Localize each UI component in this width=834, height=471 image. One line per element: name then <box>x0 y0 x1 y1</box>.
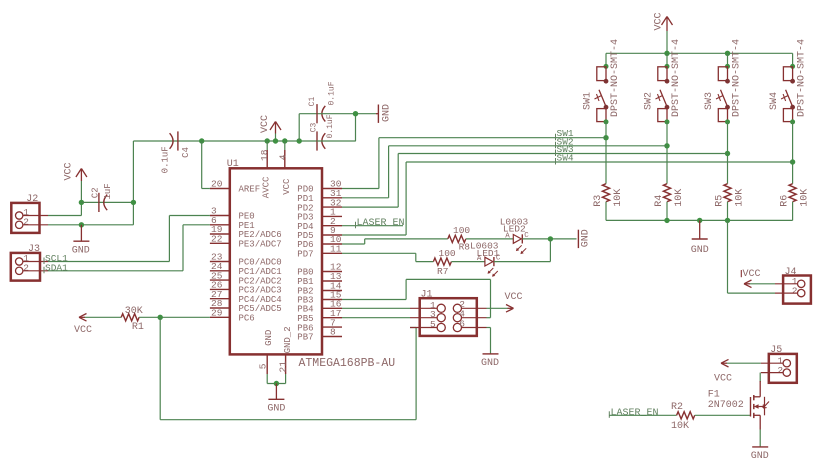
svg-text:U1: U1 <box>227 159 239 170</box>
pin PB3 (15) <box>322 299 342 301</box>
resistor R8 100 <box>448 235 466 242</box>
svg-text:J1: J1 <box>421 289 433 300</box>
junction rail-SW2 <box>664 51 669 56</box>
pin PD0 (30) <box>322 188 342 190</box>
svg-text:C3: C3 <box>309 122 318 132</box>
pin PC6 (29) <box>210 316 230 318</box>
wire SW1 column down <box>605 122 607 184</box>
junction C2 left <box>79 200 84 205</box>
pin AREF (20) <box>210 188 230 190</box>
pin AVCC (18) <box>266 150 268 168</box>
connector J1 <box>420 298 477 336</box>
svg-text:ATMEGA168PB-AU: ATMEGA168PB-AU <box>299 357 396 370</box>
wire net SW4 vertical from PD5 <box>405 162 407 235</box>
pin PD7 (11) <box>322 252 342 254</box>
wire net SW1 vertical from PD0 <box>378 138 380 189</box>
wire net LASER_EN (PD4) <box>342 225 403 227</box>
wire C1 branch up <box>298 114 300 141</box>
resistor R1 30K <box>85 316 121 318</box>
svg-text:30K: 30K <box>125 306 143 317</box>
junction AREF drop <box>199 138 204 143</box>
resistor R3 10K <box>602 184 609 202</box>
LED LED1 L0603 <box>485 257 493 266</box>
svg-text:LASER_EN: LASER_EN <box>357 218 405 229</box>
power VCC (R1) <box>79 314 87 318</box>
power VCC (J4) <box>744 280 752 284</box>
svg-text:10K: 10K <box>800 189 811 207</box>
wire net SCL1 <box>48 261 169 263</box>
svg-text:VCC: VCC <box>260 115 271 133</box>
pin PE3/ADC7 (22) <box>210 242 230 244</box>
svg-text:2: 2 <box>23 217 29 228</box>
svg-text:20: 20 <box>211 179 223 190</box>
svg-text:DPST-NO-SMT-4: DPST-NO-SMT-4 <box>732 39 743 117</box>
junction R1/reset loop <box>158 315 163 320</box>
pin PD1 (31) <box>322 197 342 199</box>
svg-text:LASER_EN: LASER_EN <box>611 408 659 419</box>
svg-text:C2: C2 <box>91 187 101 198</box>
pin PB2 (14) <box>322 290 342 292</box>
label net SDA1 <box>43 267 45 274</box>
svg-text:0.1uF: 0.1uF <box>161 146 171 173</box>
ground (C1/C3) rotated <box>376 113 378 115</box>
wire SW2 column down <box>666 122 668 184</box>
wire net SW2 horizontal <box>389 145 667 147</box>
svg-text:SW4: SW4 <box>557 153 574 164</box>
wire AREF connection <box>201 141 203 189</box>
svg-text:18: 18 <box>259 149 270 161</box>
power VCC (U1) <box>275 123 277 134</box>
svg-text:PD7: PD7 <box>297 250 313 260</box>
IC U1 ATMEGA168PB-AU <box>230 168 322 354</box>
svg-text:100: 100 <box>439 248 456 259</box>
pin PE1 (6) <box>210 224 230 226</box>
pin PB0 (12) <box>322 271 342 273</box>
wire resistor bottom rail <box>606 219 793 221</box>
pin PD3 (1) <box>322 215 342 217</box>
svg-text:GND_2: GND_2 <box>283 326 293 353</box>
svg-text:AVCC: AVCC <box>262 176 272 198</box>
svg-text:GND: GND <box>481 358 499 369</box>
wire net SW1 horizontal <box>379 137 606 139</box>
svg-text:PB1: PB1 <box>297 277 313 287</box>
svg-text:DPST-NO-SMT-4: DPST-NO-SMT-4 <box>610 39 621 117</box>
svg-text:SW3: SW3 <box>704 92 715 110</box>
label net SW3 <box>555 150 557 157</box>
svg-text:SW1: SW1 <box>583 92 594 110</box>
capacitor C1 0.1uF <box>316 104 318 123</box>
pin PD5 (9) <box>322 234 342 236</box>
ground (J1) <box>483 353 499 355</box>
svg-text:GND: GND <box>751 451 769 462</box>
resistor R6 10K <box>789 184 796 202</box>
power VCC (J2/C2) <box>80 170 82 182</box>
wire PD7 to R7 <box>342 252 416 254</box>
svg-text:C1: C1 <box>308 96 317 106</box>
junction rail-R4 <box>664 218 669 223</box>
junction J2 pin2 / GND <box>79 222 84 227</box>
ground (LED) rotated <box>577 230 579 248</box>
junction SW4 net <box>790 159 795 164</box>
junction rail-SW3 <box>725 51 730 56</box>
wire PB5 to J1 pin3 <box>342 317 410 319</box>
power VCC (J5) <box>721 359 729 363</box>
svg-text:11: 11 <box>330 244 342 255</box>
wire LED1 up to LED2 net <box>494 261 551 263</box>
svg-text:22: 22 <box>211 234 223 245</box>
svg-text:AREF: AREF <box>239 185 261 195</box>
junction IC ground <box>274 381 279 386</box>
junction VCC stub <box>282 138 287 143</box>
pin PE0 (3) <box>210 215 230 217</box>
junction AVCC stub <box>265 138 270 143</box>
ground (switch rail) <box>699 220 701 239</box>
svg-text:0.1uF: 0.1uF <box>328 81 337 105</box>
svg-text:10K: 10K <box>734 189 745 207</box>
wire J2 pin1 to VCC <box>48 215 81 217</box>
wire R5 column to J4 pin2 <box>727 220 729 293</box>
wire J1 pin2 to VCC <box>487 307 508 309</box>
wire C2 right to GND net <box>132 141 134 225</box>
wire SW4 column down <box>792 122 794 184</box>
resistor R2 10K <box>677 412 695 419</box>
wire net SW2 vertical from PD1 <box>388 146 390 198</box>
svg-text:29: 29 <box>211 308 223 319</box>
svg-text:VCC: VCC <box>654 12 665 30</box>
svg-text:GND: GND <box>381 104 392 122</box>
switch SW4 DPST-NO-SMT-4 <box>792 53 794 66</box>
svg-text:10K: 10K <box>613 189 624 207</box>
junction VCC arrow <box>273 138 278 143</box>
svg-text:PB7: PB7 <box>297 333 313 343</box>
pin PB7 (8) <box>322 336 342 338</box>
wire AVCC rail <box>133 140 316 142</box>
svg-text:C4: C4 <box>181 147 191 158</box>
junction SW3 net <box>725 151 730 156</box>
pin GND_2 (21) <box>285 354 287 374</box>
svg-text:R3: R3 <box>593 195 604 207</box>
label net LASER_EN (F1 gate) <box>608 411 610 418</box>
wire PD6 to R8 <box>342 243 365 245</box>
junction SW1 net <box>603 135 608 140</box>
wire reset loop down-right <box>159 317 161 419</box>
svg-text:VCC: VCC <box>74 325 92 336</box>
svg-text:GND: GND <box>264 330 274 346</box>
transistor F1 2N7002 <box>750 397 752 417</box>
svg-text:GND: GND <box>72 245 90 256</box>
svg-text:SW2: SW2 <box>644 92 655 110</box>
wire GND net to J2 pin2 <box>48 224 133 226</box>
pin PB4 (16) <box>322 307 342 309</box>
wire F1 source to GND <box>759 415 761 429</box>
svg-text:VCC: VCC <box>505 292 523 303</box>
svg-text:R4: R4 <box>654 195 665 207</box>
svg-text:J2: J2 <box>26 194 38 205</box>
wire J4 pin1 to VCC <box>750 283 775 285</box>
junction rail-R5/J4 <box>725 218 730 223</box>
wire net SW3 vertical from PD2 <box>397 154 399 208</box>
pin PB5 (17) <box>322 317 342 319</box>
junction LED nets <box>548 236 553 241</box>
svg-text:PE3/ADC7: PE3/ADC7 <box>239 240 282 250</box>
svg-text:10K: 10K <box>671 421 689 432</box>
wire R2 to F1 gate <box>695 414 751 416</box>
wire net SW4 horizontal <box>406 161 792 163</box>
label net SCL1 <box>43 258 45 265</box>
label net SW4 <box>555 158 557 165</box>
svg-text:2: 2 <box>777 365 783 376</box>
svg-text:2: 2 <box>23 263 29 274</box>
pin PC0/ADC0 (23) <box>210 261 230 263</box>
svg-text:5: 5 <box>257 363 268 369</box>
ground (IC) <box>275 384 277 400</box>
label net LASER_EN (PD4) <box>355 222 357 229</box>
svg-text:J3: J3 <box>28 244 40 255</box>
connector J4 <box>783 276 811 304</box>
ground (F1) <box>752 446 768 448</box>
junction SW2 net <box>664 143 669 148</box>
wire SW3 column down <box>727 122 729 184</box>
pin PC2/ADC2 (25) <box>210 279 230 281</box>
pin PE2/ADC6 (19) <box>210 233 230 235</box>
resistor R7 100 <box>433 258 451 265</box>
svg-text:GND: GND <box>267 404 285 415</box>
svg-text:VCC: VCC <box>714 374 732 385</box>
svg-text:VCC: VCC <box>282 178 292 195</box>
svg-text:A: A <box>505 232 510 240</box>
wire VCC rail to switches <box>606 52 793 54</box>
svg-text:GND: GND <box>581 229 592 247</box>
capacitor C2 1uF <box>81 201 133 203</box>
junction C1/C3 <box>353 111 358 116</box>
capacitor C3 0.1uF <box>316 131 318 150</box>
svg-text:R8: R8 <box>459 242 471 253</box>
wire C1 to GND <box>318 113 376 115</box>
svg-text:2: 2 <box>792 285 798 296</box>
pin PC4/ADC4 (27) <box>210 298 230 300</box>
label net SW2 <box>555 142 557 149</box>
svg-text:VCC: VCC <box>743 269 761 280</box>
junction C2/C4 gnd <box>131 200 136 205</box>
capacitor C4 0.1uF <box>170 133 173 149</box>
pin PB1 (13) <box>322 280 342 282</box>
connector J5 <box>769 354 797 383</box>
svg-text:GND: GND <box>691 245 709 256</box>
svg-text:R5: R5 <box>714 195 725 207</box>
pin PD2 (32) <box>322 206 342 208</box>
switch SW3 DPST-NO-SMT-4 <box>727 53 729 66</box>
LED LED2 L0603 <box>513 235 521 244</box>
wire C3 up to C1 net <box>317 140 356 142</box>
pin PC1/ADC1 (24) <box>210 270 230 272</box>
svg-text:1uF: 1uF <box>103 183 113 199</box>
wire J5 pin2 to F1 drain <box>759 373 761 382</box>
wire J1 pin6 to GND <box>487 327 491 329</box>
svg-text:PB0: PB0 <box>297 268 313 278</box>
wire R7 to LED1 <box>451 261 485 263</box>
svg-text:4: 4 <box>278 154 289 160</box>
svg-text:2N7002: 2N7002 <box>708 400 744 411</box>
svg-text:0.1uF: 0.1uF <box>326 114 335 138</box>
junction C1 branch <box>297 138 302 143</box>
pin PD6 (10) <box>322 243 342 245</box>
power VCC (J1) <box>506 305 514 309</box>
wire J5 pin1 to VCC <box>727 362 761 364</box>
wire net SDA1 <box>48 270 183 272</box>
svg-text:DPST-NO-SMT-4: DPST-NO-SMT-4 <box>671 39 682 117</box>
label net SW1 <box>555 134 557 141</box>
pin GND (5) <box>266 354 268 374</box>
ground (J2) <box>80 225 82 241</box>
svg-text:SDA1: SDA1 <box>45 262 68 273</box>
svg-text:R2: R2 <box>671 402 683 413</box>
svg-text:100: 100 <box>453 225 470 236</box>
svg-text:R7: R7 <box>437 266 448 277</box>
wire PB4 to J1 pin1 <box>342 307 410 309</box>
connector J2 <box>11 203 39 233</box>
junction rail-GND tap <box>697 218 702 223</box>
wire net SW3 horizontal <box>398 153 727 155</box>
wire R8 to LED2 <box>466 238 514 240</box>
resistor R4 10K <box>663 184 670 202</box>
pin PC3/ADC3 (26) <box>210 288 230 290</box>
switch SW2 DPST-NO-SMT-4 <box>666 53 668 66</box>
wire LED2 to GND <box>522 238 576 240</box>
svg-text:5: 5 <box>430 319 436 330</box>
pin PB6 (7) <box>322 326 342 328</box>
svg-text:21: 21 <box>277 361 288 373</box>
svg-text:PC6: PC6 <box>239 314 255 324</box>
svg-text:10K: 10K <box>674 189 685 207</box>
svg-text:A: A <box>477 255 482 263</box>
svg-text:F1: F1 <box>708 389 720 400</box>
switch SW1 DPST-NO-SMT-4 <box>605 53 607 66</box>
wire PB3 wrap to J1 pin4 <box>342 299 406 301</box>
pin VCC (4) <box>284 150 286 168</box>
svg-text:R6: R6 <box>780 195 791 207</box>
svg-text:8: 8 <box>330 327 336 338</box>
wire LASER_EN to R2 <box>609 414 676 416</box>
power VCC (switch bank) <box>666 18 668 32</box>
connector J3 <box>11 253 40 281</box>
pin PC5/ADC5 (28) <box>210 307 230 309</box>
resistor R5 10K <box>724 184 731 202</box>
pin PD4 (2) <box>322 225 342 227</box>
svg-text:SW4: SW4 <box>769 92 780 110</box>
svg-text:VCC: VCC <box>64 162 75 180</box>
wire IC ground join <box>266 374 268 384</box>
svg-text:DPST-NO-SMT-4: DPST-NO-SMT-4 <box>797 39 808 117</box>
svg-text:R1: R1 <box>132 322 144 333</box>
